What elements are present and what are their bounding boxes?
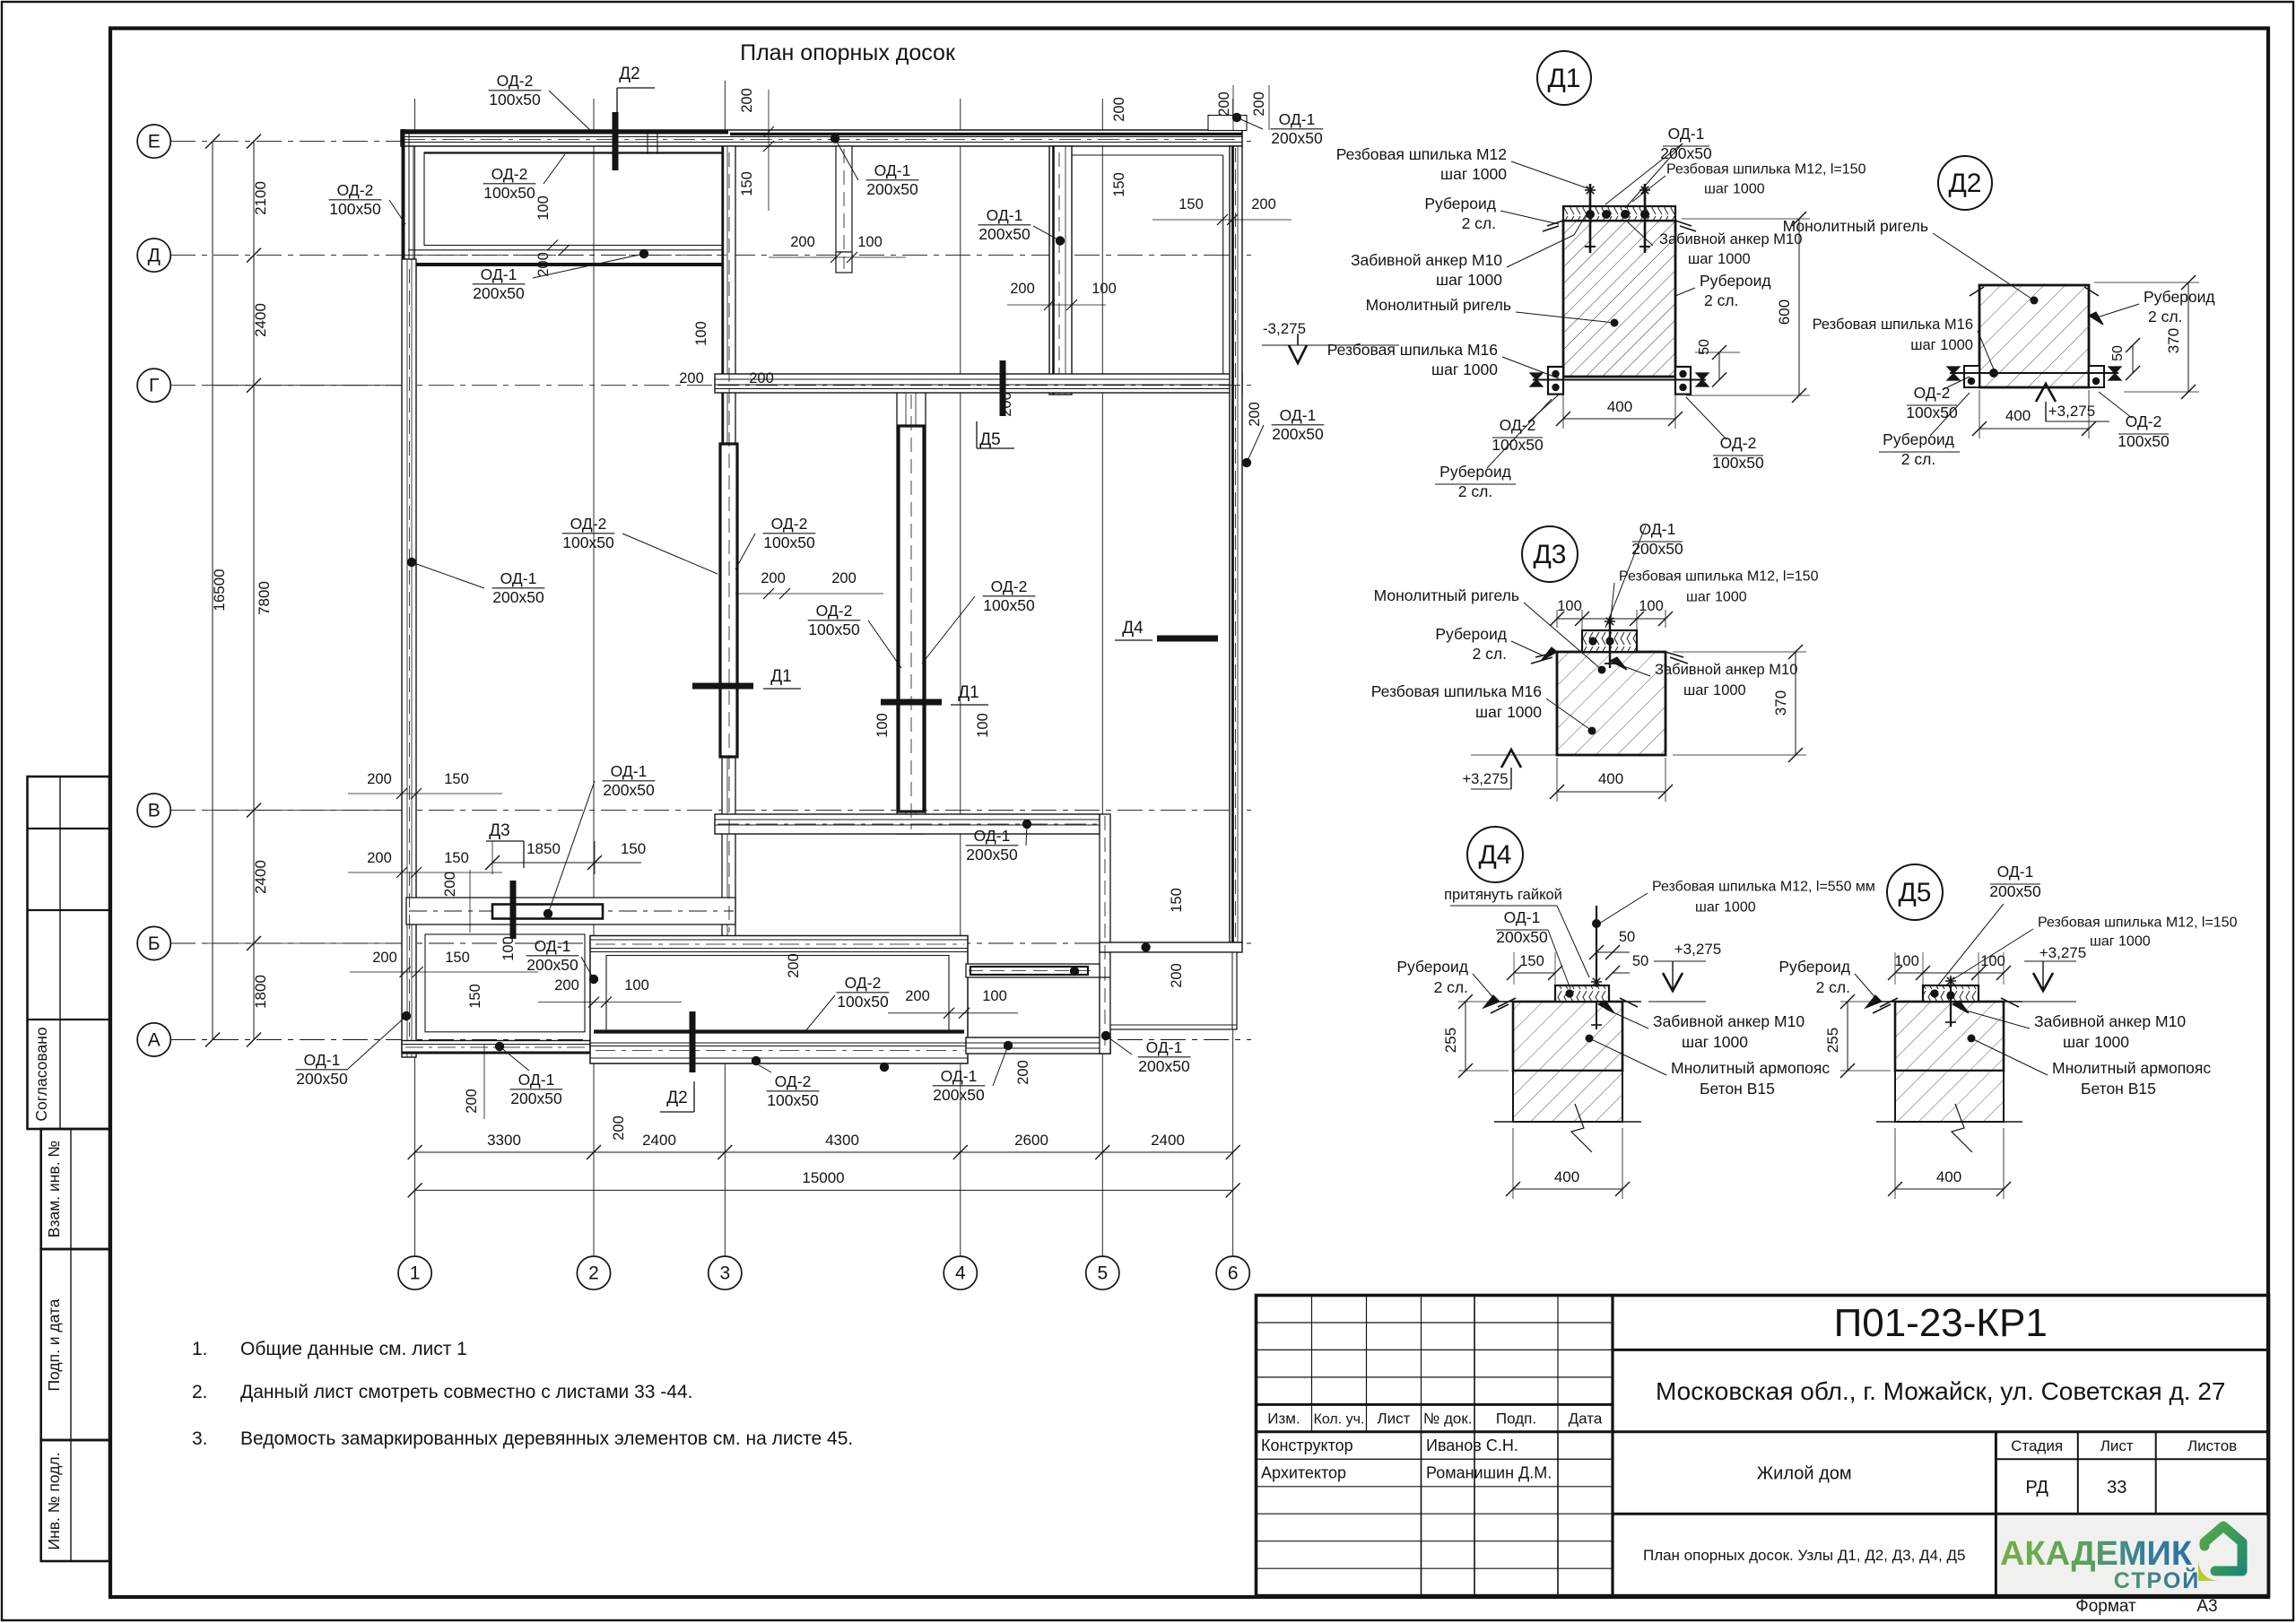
corner board top right (1208, 116, 1247, 131)
svg-text:200х50: 200х50 (492, 588, 544, 606)
Д1 tie rod M16 (1533, 379, 1706, 381)
wall on axis Е (exterior top) (401, 130, 1242, 146)
Д5 break symbol (1952, 1104, 1972, 1152)
svg-text:200х50: 200х50 (978, 225, 1031, 243)
axis line А (170, 1039, 1251, 1041)
svg-text:200х50: 200х50 (526, 956, 578, 974)
svg-text:1800: 1800 (252, 975, 269, 1009)
svg-text:ОД-1: ОД-1 (1668, 125, 1705, 143)
svg-text:150: 150 (445, 950, 470, 966)
svg-text:100х50: 100х50 (489, 91, 541, 108)
left margin table Согласовано (28, 777, 110, 1129)
Д1 leaders right (1632, 176, 1665, 202)
svg-text:Романишин Д.М.: Романишин Д.М. (1426, 1464, 1552, 1482)
Д2 side board left (1964, 366, 1979, 387)
svg-text:200: 200 (1169, 963, 1185, 988)
svg-text:100: 100 (693, 321, 709, 346)
svg-text:Резбовая шпилька М16: Резбовая шпилька М16 (1813, 317, 1973, 333)
junction dot (407, 558, 416, 567)
svg-text:Резбовая шпилька М12, l=150: Резбовая шпилька М12, l=150 (2038, 916, 2238, 931)
Д4 concrete block (1513, 1002, 1622, 1071)
bottom-middle room exterior walls (590, 936, 968, 1064)
Д3 ruberoid marks (1535, 652, 1557, 657)
wall on axis Д (top-left block bottom) (408, 249, 728, 251)
Д5 ruberoid marks (1880, 998, 1898, 1007)
header row thick bounds (1257, 1403, 1613, 1406)
svg-text:200: 200 (611, 1115, 627, 1141)
Д3 dims 100 100 (1557, 618, 1665, 620)
svg-text:100: 100 (857, 234, 883, 250)
svg-text:100х50: 100х50 (837, 993, 889, 1011)
wall K stub top middle (836, 146, 852, 252)
svg-text:ОД-1: ОД-1 (500, 569, 537, 587)
svg-text:1850: 1850 (526, 840, 561, 857)
bottom wall lines of bottom room (590, 1042, 968, 1044)
svg-text:200: 200 (786, 953, 802, 978)
svg-text:200х50: 200х50 (933, 1086, 985, 1104)
title block left columns (1311, 1296, 1313, 1432)
Д5 dims 100 100 (1895, 972, 2004, 974)
svg-text:Подп.: Подп. (1496, 1410, 1536, 1428)
Д4 ground lines (1494, 1001, 1513, 1002)
svg-text:Д: Д (148, 246, 161, 266)
svg-text:100х50: 100х50 (329, 200, 381, 218)
Д4 masonry below (1513, 1071, 1622, 1122)
junction dot (495, 1042, 504, 1051)
svg-text:200: 200 (761, 570, 786, 586)
axis line В (170, 810, 1251, 811)
svg-text:370: 370 (2165, 328, 2182, 353)
svg-text:Дата: Дата (1569, 1410, 1603, 1428)
svg-text:1.: 1. (192, 1339, 208, 1359)
svg-text:200х50: 200х50 (296, 1070, 348, 1088)
svg-text:Московская обл., г. Можайск, у: Московская обл., г. Можайск, ул. Советск… (1656, 1377, 2226, 1405)
svg-text:ОД-1: ОД-1 (987, 206, 1023, 224)
Д2 dim 400 (1979, 428, 2089, 430)
Д3 concrete block (1557, 652, 1665, 755)
svg-text:100: 100 (535, 195, 552, 221)
svg-text:Д5: Д5 (979, 430, 1000, 449)
svg-text:Рубероид: Рубероид (1396, 958, 1468, 976)
axis circle 1 (398, 1256, 431, 1289)
left margin table Подп. и дата (41, 1249, 109, 1440)
section bar Д4 (1157, 636, 1218, 642)
axis line Д (170, 255, 1251, 256)
axis line 6 (1232, 99, 1234, 1256)
svg-text:100х50: 100х50 (983, 596, 1035, 614)
svg-text:4: 4 (955, 1263, 966, 1284)
svg-text:400: 400 (1598, 770, 1623, 787)
svg-text:200: 200 (535, 252, 552, 277)
svg-text:3: 3 (719, 1263, 730, 1284)
junction dot (1242, 458, 1251, 467)
svg-text:200: 200 (372, 950, 397, 966)
svg-text:Д3: Д3 (1533, 540, 1566, 569)
svg-text:+3,275: +3,275 (1674, 941, 1721, 958)
svg-text:2400: 2400 (642, 1132, 676, 1149)
svg-text:100х50: 100х50 (2118, 432, 2170, 450)
axis circle 6 (1216, 1256, 1249, 1289)
svg-text:Конструктор: Конструктор (1261, 1436, 1353, 1454)
Д1 concrete block (1563, 221, 1675, 377)
Д1 side board right (1675, 367, 1691, 395)
svg-text:400: 400 (1607, 398, 1632, 415)
svg-text:ОД-2: ОД-2 (497, 72, 534, 90)
title block rows (1257, 1322, 1613, 1324)
svg-text:Забивной анкер М10: Забивной анкер М10 (2034, 1012, 2186, 1030)
Д4 long stud (1596, 947, 1597, 1031)
Д2 dim 50 (2132, 345, 2134, 373)
svg-text:400: 400 (2005, 407, 2031, 424)
svg-text:100: 100 (982, 988, 1007, 1004)
axis line Г (170, 385, 1251, 386)
wall left edge of top-left block (thick) (402, 129, 405, 265)
svg-text:370: 370 (1772, 690, 1789, 716)
wall on axis В (middle) (715, 814, 1100, 834)
svg-text:3.: 3. (192, 1428, 208, 1449)
rotated dims near wall C top (768, 90, 770, 211)
svg-text:2400: 2400 (252, 860, 269, 894)
svg-text:ОД-1: ОД-1 (304, 1051, 341, 1069)
svg-text:Монолитный ригель: Монолитный ригель (1366, 296, 1511, 314)
Д4 break symbol (1571, 1104, 1592, 1152)
svg-text:50: 50 (1619, 929, 1635, 945)
svg-text:Резбовая шпилька М12, l=150: Резбовая шпилька М12, l=150 (1666, 162, 1866, 178)
svg-text:Рубероид: Рубероид (1779, 958, 1850, 976)
svg-text:Д5: Д5 (1898, 878, 1931, 907)
junction dot (1101, 1031, 1110, 1040)
svg-text:150: 150 (1178, 196, 1204, 213)
svg-text:Резбовая шпилька М12: Резбовая шпилька М12 (1336, 145, 1507, 163)
svg-text:3300: 3300 (487, 1132, 521, 1149)
junction dot (752, 1056, 761, 1065)
left margin table Взам. инв. № (41, 1129, 109, 1249)
svg-text:200х50: 200х50 (1138, 1057, 1190, 1075)
svg-text:200: 200 (905, 988, 930, 1004)
svg-text:П01-23-КР1: П01-23-КР1 (1834, 1301, 2048, 1345)
svg-text:шаг 1000: шаг 1000 (1682, 1033, 1748, 1051)
svg-text:7800: 7800 (256, 581, 273, 615)
svg-text:100: 100 (624, 977, 649, 994)
dim 1850/150 near Д3 (492, 862, 641, 864)
Д1 ruberoid edge marks (1547, 221, 1563, 226)
axis circle В (137, 794, 170, 827)
svg-text:шаг 1000: шаг 1000 (1436, 271, 1502, 289)
svg-text:ОД-2: ОД-2 (845, 974, 882, 992)
left margin table Инв. № подл. (41, 1440, 109, 1561)
svg-text:255: 255 (1824, 1028, 1841, 1053)
svg-text:шаг 1000: шаг 1000 (1683, 682, 1746, 699)
svg-text:шаг 1000: шаг 1000 (1686, 590, 1747, 605)
title block outer (1257, 1296, 2269, 1596)
svg-text:200: 200 (464, 1089, 480, 1114)
svg-text:ОД-2: ОД-2 (816, 602, 853, 620)
svg-text:-3,275: -3,275 (1263, 320, 1306, 337)
svg-text:2 сл.: 2 сл. (1473, 645, 1507, 663)
bottom-right annex walls (1110, 952, 1237, 1029)
axis line 4 (960, 99, 961, 1256)
svg-text:Д2: Д2 (619, 65, 639, 83)
svg-text:200: 200 (1015, 1060, 1031, 1085)
svg-text:200: 200 (1247, 402, 1263, 427)
Д5 dim 255 (1847, 1002, 1848, 1071)
junction dot (1056, 236, 1065, 245)
svg-text:шаг 1000: шаг 1000 (2063, 1033, 2129, 1051)
svg-text:100: 100 (1894, 953, 1919, 969)
svg-text:Забивной анкер М10: Забивной анкер М10 (1653, 1012, 1805, 1030)
title block left vertical main (1611, 1296, 1613, 1596)
svg-text:Рубероид: Рубероид (1424, 195, 1496, 213)
Д1 ruberoid strip (1563, 206, 1675, 221)
svg-text:Забивной анкер М10: Забивной анкер М10 (1351, 251, 1502, 269)
wall C interior vertical near axis 3 (722, 146, 735, 939)
svg-text:100х50: 100х50 (1712, 454, 1764, 472)
svg-text:Забивной анкер М10: Забивной анкер М10 (1655, 662, 1797, 678)
svg-text:400: 400 (1936, 1168, 1961, 1185)
right top dim chain (1232, 85, 1234, 130)
axis line 3 (724, 81, 726, 1256)
svg-text:100: 100 (975, 713, 991, 738)
Д4 dim 255 (1465, 1002, 1466, 1071)
Д4 stud top mark (1591, 981, 1602, 983)
svg-text:100х50: 100х50 (1492, 436, 1544, 454)
svg-text:200: 200 (441, 872, 458, 897)
svg-text:Общие данные см. лист 1: Общие данные см. лист 1 (240, 1339, 467, 1359)
axis line Б (170, 942, 1251, 944)
svg-text:Рубероид: Рубероид (1439, 463, 1511, 481)
svg-text:2400: 2400 (1151, 1132, 1185, 1149)
svg-text:200х50: 200х50 (510, 1089, 562, 1107)
logo house icon (2198, 1526, 2242, 1581)
axis circle Д (137, 239, 170, 272)
svg-text:200: 200 (554, 977, 579, 994)
svg-text:100: 100 (500, 936, 517, 961)
svg-text:100: 100 (1557, 598, 1582, 614)
svg-text:Д1: Д1 (770, 667, 791, 686)
svg-text:6: 6 (1228, 1263, 1239, 1284)
left dimension chain 16500 (212, 142, 213, 1040)
svg-text:Бетон В15: Бетон В15 (1700, 1080, 1775, 1098)
Д4 anchor symbol (1596, 1002, 1597, 1029)
svg-text:50: 50 (1632, 953, 1648, 969)
svg-text:Архитектор: Архитектор (1261, 1464, 1346, 1482)
Д3 stud (1609, 617, 1611, 668)
svg-text:200: 200 (367, 850, 392, 866)
svg-text:План опорных досок: План опорных досок (740, 40, 956, 65)
svg-text:2.: 2. (192, 1382, 208, 1402)
Д5 board (1923, 985, 1979, 1002)
junction dot (831, 134, 839, 143)
svg-text:Подп. и дата: Подп. и дата (45, 1298, 63, 1391)
axis circle 2 (577, 1256, 610, 1289)
svg-text:Резбовая шпилька М16: Резбовая шпилька М16 (1371, 682, 1542, 700)
detail Д2 circle (1938, 156, 1992, 210)
axis line 1 (414, 99, 416, 1256)
svg-text:200: 200 (790, 234, 815, 250)
svg-text:200х50: 200х50 (1496, 928, 1548, 946)
svg-text:шаг 1000: шаг 1000 (1695, 900, 1756, 916)
inner rect of top-left block (424, 152, 726, 246)
svg-text:ОД-2: ОД-2 (570, 515, 607, 533)
svg-text:100х50: 100х50 (483, 184, 535, 202)
inner board line below Е wall right part (1072, 154, 1223, 156)
svg-text:2 сл.: 2 сл. (2148, 308, 2182, 325)
svg-text:Согласовано: Согласовано (32, 1027, 50, 1121)
svg-text:шаг 1000: шаг 1000 (1431, 360, 1498, 378)
axis circle 4 (944, 1256, 977, 1289)
svg-text:А3: А3 (2196, 1597, 2217, 1616)
svg-text:100х50: 100х50 (562, 534, 614, 551)
svg-text:Взам. инв. №: Взам. инв. № (45, 1141, 63, 1237)
svg-text:600: 600 (1776, 299, 1793, 325)
wall on axis 6 (exterior right) (1230, 146, 1242, 942)
svg-text:ОД-1: ОД-1 (1279, 110, 1316, 128)
svg-text:100х50: 100х50 (763, 534, 815, 551)
bottom dimension chain 15000 (415, 1189, 1233, 1191)
detail Д5 circle (1887, 864, 1943, 920)
wall centerline dashes (404, 139, 1239, 141)
Д3 dim 370 (1795, 652, 1796, 755)
svg-text:Д3: Д3 (489, 821, 509, 840)
wall J interior vertical between axes 4-5 (1049, 146, 1072, 395)
svg-text:200х50: 200х50 (1272, 425, 1324, 443)
svg-text:Изм.: Изм. (1267, 1410, 1300, 1428)
svg-text:200х50: 200х50 (1989, 882, 2041, 900)
svg-text:+3,275: +3,275 (2039, 944, 2086, 961)
inner rect of bottom-left room (425, 934, 585, 1032)
Д4 board (1555, 985, 1609, 1002)
svg-text:4300: 4300 (825, 1132, 859, 1149)
svg-text:План опорных досок. Узлы Д1, Д: План опорных досок. Узлы Д1, Д2, Д3, Д4,… (1643, 1547, 1965, 1564)
svg-text:ОД-2: ОД-2 (775, 1072, 812, 1090)
svg-text:200: 200 (679, 370, 704, 386)
svg-text:2 сл.: 2 сл. (1434, 978, 1468, 996)
svg-text:ОД-1: ОД-1 (941, 1067, 978, 1085)
svg-text:2100: 2100 (252, 181, 269, 215)
junction dot (1232, 113, 1241, 122)
axis circle Е (137, 125, 170, 158)
svg-text:16500: 16500 (211, 568, 228, 611)
Д1 label leaders left (1511, 161, 1587, 188)
svg-text:200: 200 (739, 88, 755, 113)
svg-text:Д1: Д1 (1547, 64, 1580, 93)
bottom-left exterior wall on axis А (402, 1041, 590, 1054)
svg-text:ОД-1: ОД-1 (1504, 908, 1541, 926)
svg-text:Лист: Лист (1378, 1410, 1411, 1428)
svg-text:Резбовая шпилька М16: Резбовая шпилька М16 (1327, 341, 1498, 359)
svg-text:150: 150 (739, 171, 755, 196)
svg-text:150: 150 (1169, 888, 1185, 913)
svg-text:2 сл.: 2 сл. (1462, 214, 1496, 232)
Д2 ruberoid marks (1970, 287, 1984, 296)
svg-text:№ док.: № док. (1423, 1410, 1473, 1428)
junction dot (880, 1063, 889, 1072)
svg-text:шаг 1000: шаг 1000 (1910, 337, 1973, 353)
svg-text:200: 200 (367, 771, 392, 787)
svg-text:50: 50 (2110, 345, 2126, 361)
Д1 stud symbols (1589, 184, 1592, 253)
Д1 dim 400 (1563, 418, 1675, 420)
svg-text:200: 200 (1251, 196, 1276, 213)
svg-text:Д2: Д2 (1948, 169, 1981, 198)
Д2 dim 370 (2187, 282, 2189, 392)
svg-text:ОД-1: ОД-1 (1997, 863, 2034, 881)
detail Д1 circle (1537, 51, 1591, 105)
svg-text:ОД-2: ОД-2 (337, 181, 374, 199)
protrusion block walls (axes 4-5, Б-А) (966, 964, 1100, 977)
svg-text:ОД-1: ОД-1 (974, 827, 1011, 845)
svg-text:ОД-1: ОД-1 (481, 265, 517, 283)
axis circle Г (137, 369, 170, 402)
svg-text:Резбовая шпилька М12, l=550 мм: Резбовая шпилька М12, l=550 мм (1652, 880, 1875, 895)
svg-text:100: 100 (874, 713, 891, 738)
svg-text:150: 150 (444, 850, 469, 866)
detail Д3 circle (1522, 526, 1578, 582)
section bar Д2 top (613, 112, 619, 170)
Д4 dims 150 50 50 (1514, 972, 1555, 974)
svg-text:ОД-2: ОД-2 (1914, 384, 1951, 402)
svg-text:СТРОЙ: СТРОЙ (2114, 1567, 2200, 1593)
detail Д4 circle (1467, 827, 1523, 882)
left dimension chain interaxis (253, 142, 255, 1040)
svg-text:200: 200 (1111, 97, 1127, 122)
svg-text:А: А (148, 1030, 161, 1051)
svg-text:Резбовая шпилька М12, l=150: Резбовая шпилька М12, l=150 (1619, 569, 1819, 585)
support beam ОД-1 with Д3 (В-Б span) (406, 898, 735, 924)
section bar Д5 crossing Г wall (1000, 360, 1006, 416)
Д5 stud (1950, 977, 1952, 1027)
svg-text:50: 50 (1697, 339, 1712, 355)
svg-text:Кол. уч.: Кол. уч. (1314, 1412, 1365, 1428)
svg-text:100: 100 (1980, 953, 2005, 969)
svg-text:100: 100 (1091, 281, 1117, 297)
svg-text:АКАДЕМИК: АКАДЕМИК (2000, 1535, 2193, 1573)
svg-text:100х50: 100х50 (767, 1091, 819, 1109)
svg-text:2 сл.: 2 сл. (1704, 291, 1738, 309)
svg-text:ОД-2: ОД-2 (991, 577, 1028, 595)
svg-text:Иванов С.Н.: Иванов С.Н. (1426, 1436, 1518, 1454)
svg-text:2 сл.: 2 сл. (1458, 482, 1492, 500)
svg-text:Бетон В15: Бетон В15 (2081, 1080, 2156, 1098)
junction dot (544, 909, 552, 918)
svg-text:ОД-1: ОД-1 (611, 762, 648, 780)
board ОД-1 in protrusion beam (970, 967, 1088, 975)
Д3 dim 400 (1557, 791, 1665, 793)
Д5 ground lines (1876, 1001, 1895, 1002)
svg-text:шаг 1000: шаг 1000 (2090, 934, 2151, 950)
wall D interior vertical between axes 3-4 (897, 387, 926, 834)
axis circle А (137, 1023, 170, 1056)
board ОД-1 inside beam (409, 910, 734, 912)
svg-text:ОД-2: ОД-2 (2126, 412, 2162, 430)
svg-text:шаг 1000: шаг 1000 (1440, 165, 1507, 183)
Д2 concrete block (1979, 285, 2089, 387)
svg-text:ОД-2: ОД-2 (1720, 434, 1757, 452)
Д3 elevation +3,275 (1501, 750, 1521, 768)
junction dot (1022, 820, 1031, 829)
svg-text:Рубероид: Рубероид (1700, 272, 1771, 290)
svg-text:Мнолитный армопояс: Мнолитный армопояс (2052, 1059, 2211, 1077)
svg-text:Стадия: Стадия (2011, 1437, 2063, 1454)
svg-text:шаг 1000: шаг 1000 (1688, 251, 1751, 267)
svg-text:Инв. № подл.: Инв. № подл. (45, 1452, 63, 1549)
svg-text:ОД-1: ОД-1 (535, 937, 571, 955)
svg-text:ОД-1: ОД-1 (1280, 406, 1317, 424)
svg-text:200х50: 200х50 (473, 284, 525, 302)
svg-text:+3,275: +3,275 (2048, 403, 2095, 420)
Д4 ruberoid marks (1498, 998, 1516, 1007)
svg-text:ОД-2: ОД-2 (771, 515, 808, 533)
